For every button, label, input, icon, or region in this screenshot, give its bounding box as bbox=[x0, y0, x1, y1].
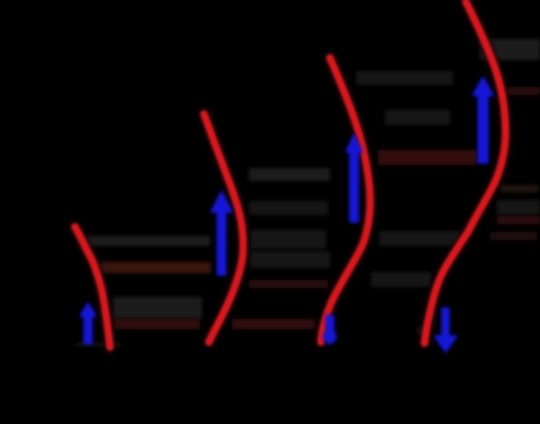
faint label band dark red (gap 3 row 2) bbox=[378, 150, 477, 165]
faint baseline smudge under curve 1 bbox=[75, 343, 122, 346]
blue down arrow (under curve 4) bbox=[435, 308, 457, 352]
faint label band dark red (right edge row 3) bbox=[497, 216, 540, 224]
red curve 4 (tallest, rightmost) bbox=[425, 2, 506, 343]
blue up arrow 2 (beside curve 2) bbox=[211, 192, 232, 276]
red curve 1 (shortest, leftmost) bbox=[75, 227, 110, 347]
faint label band dark red (gap 1 upper) bbox=[99, 262, 211, 273]
faint label band gray (gap 2 row 4) bbox=[250, 251, 330, 268]
blue up arrow 4 (beside curve 4) bbox=[473, 77, 493, 163]
faint label block gray (gap 1 lower) bbox=[113, 297, 202, 319]
faint smudge near curve 4 bottom bbox=[417, 327, 425, 334]
faint label band gray (gap 2 row 3) bbox=[250, 230, 326, 249]
blue down arrow small (at curve 3 bottom) bbox=[324, 316, 336, 345]
red curve 3 bbox=[321, 58, 370, 342]
faint label band dark red (gap 2 row 5) bbox=[249, 280, 328, 288]
faint label band dark red (gap 2 lower) bbox=[232, 319, 315, 329]
faint label band olive (right edge row 1) bbox=[500, 185, 538, 192]
faint label band gray (gap 2 row 2) bbox=[249, 201, 328, 215]
faint label band gray (gap 4 top) bbox=[480, 39, 540, 60]
faint label band gray (right edge row 2) bbox=[497, 200, 540, 215]
faint label band dark red (gap 4) bbox=[505, 87, 540, 95]
faint label band dark red (gap 1 lower) bbox=[113, 319, 200, 329]
blue up arrow 3 (beside curve 3) bbox=[346, 135, 362, 223]
faint label band dark red (right edge row 4) bbox=[490, 232, 537, 240]
red curve 2 bbox=[204, 114, 243, 342]
faint label band gray (gap 2 row 1) bbox=[249, 168, 330, 181]
blue up arrow 1 (at curve 1 bottom) bbox=[80, 303, 96, 344]
faint label band gray (gap 1 upper) bbox=[84, 236, 210, 246]
faint label band gray (gap 3 row 3) bbox=[379, 231, 460, 246]
faint label band gray (gap 3 row 1) bbox=[385, 110, 450, 125]
red curves halo glow bbox=[75, 2, 506, 347]
faint label band gray (gap 3 row 0) bbox=[356, 71, 453, 85]
faint label band gray (gap 3 row 4) bbox=[371, 272, 431, 287]
